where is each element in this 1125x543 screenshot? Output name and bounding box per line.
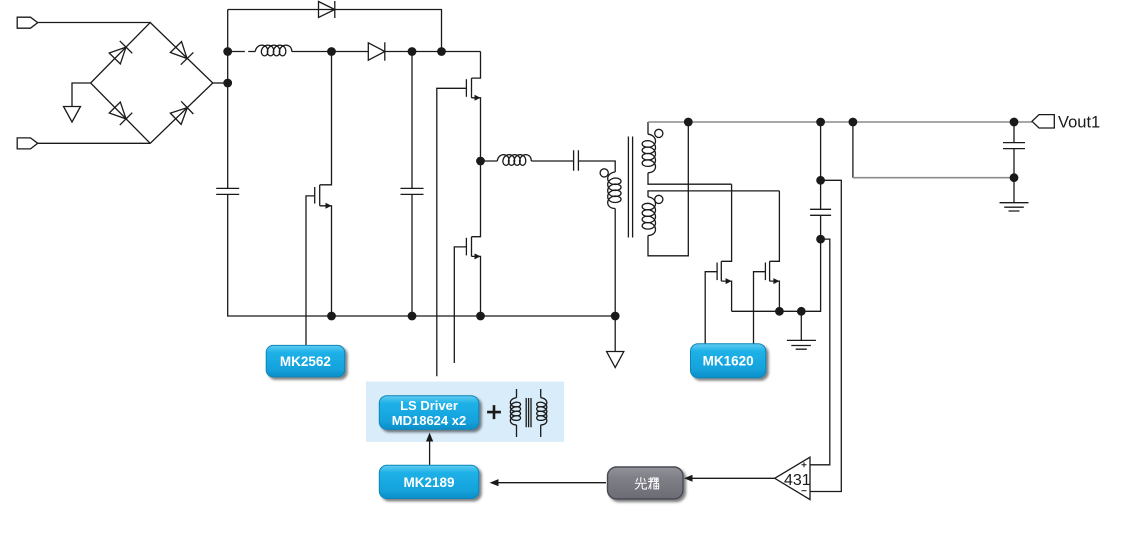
transistor Q3 drain (HB low) [472,161,481,237]
transistor M1 channel [720,261,722,281]
plus sign [487,405,501,419]
bridge rectifier diamond wires [91,23,213,144]
wire J1 to bridge top [38,22,151,24]
wire bridge left vertex to ground [72,83,91,107]
transistor Q1 gate bar [314,187,316,204]
wire mid node to L2 [481,160,498,162]
node boost bus dots [223,47,232,56]
transistor M2 channel [769,261,771,281]
wire C2 branch [411,52,413,189]
transformer T2 right lead top [540,389,542,398]
wire feedback minus sense [810,180,841,491]
wire L1 to D6 [292,51,369,53]
svg-text:Vout1: Vout1 [1058,114,1100,132]
wire return line [853,177,1014,179]
transistor Q3 gate line to LS driver [454,247,466,363]
label box MK2562 [266,345,345,377]
transistor M2 gate bar [764,263,766,281]
transistor M2 source [770,281,780,311]
transistor Q3 channel [471,237,473,257]
transistor M2 arrow [773,278,779,284]
LS driver panel [366,382,564,442]
glyph guang [635,477,658,489]
node half-bridge mid [476,157,485,166]
wire gap detail [245,50,248,53]
transformer T2 left winding [510,398,520,425]
diode D1 (bridge top-left) [109,41,133,65]
wire C2 to rail [411,194,413,316]
transistor M1 gate line to MK1620 [705,272,717,344]
transistor Q1 channel [319,185,321,206]
transistor M2 drain (sync rect) [770,191,780,261]
wire bridge right vertex to DC bus [213,82,228,84]
svg-text:431: 431 [784,472,811,489]
capacitor C4 [810,209,831,215]
svg-text:MK2562: MK2562 [280,354,331,369]
wire S2 bottom to output rail [648,122,688,256]
label box LS Driver MD18624 x2 [379,396,479,430]
transistor M1 source [721,281,731,311]
transistor Q3 source [472,256,481,316]
diode D4 (bridge bottom-right) [170,101,194,125]
inductor L1 (boost) [255,45,291,56]
wire boost input [228,51,256,53]
output connector Vout1 [1032,115,1054,128]
svg-text:MD18624 x2: MD18624 x2 [392,413,466,428]
transformer T1 secondary S2 winding [642,197,655,236]
diode D5 (bypass) [319,2,335,18]
wire rail to C5 [1013,122,1015,143]
transistor Q2 drain (HB high) [472,52,481,79]
ground G2 (chassis triangle) [607,352,624,368]
node primary rail dots [327,312,336,321]
transistor Q2 gate line to LS driver [437,88,467,376]
diode D3 (bridge bottom-left) [109,101,133,125]
transformer T1 secondary S2 phase dot [655,195,663,203]
transformer T1 secondary S1 winding [642,134,655,173]
wire rail to second filter [852,122,854,178]
capacitor C1 [216,188,239,194]
capacitor C2 [401,188,424,194]
transistor Q2 channel [471,78,473,98]
transformer T1 primary winding [608,172,621,209]
transistor Q2 source [472,98,481,161]
node return dot [1010,173,1019,182]
wire output rail Vout [648,121,1032,123]
node sync source dots [775,307,784,316]
transformer T2 core [526,398,531,427]
wire L2 to C3 [531,160,573,162]
transistor Q2 gate bar [465,79,467,97]
svg-text:MK2189: MK2189 [403,475,454,490]
input connector J2 [17,138,38,149]
ground G4 (earth) [1000,203,1029,211]
op-amp U3 (431 shunt reference) [775,457,810,499]
arrow optocoupler to MK2189 [498,482,607,484]
transistor Q2 arrow [475,95,481,101]
ground G1 (chassis triangle) [64,107,81,123]
transistor M1 gate bar [716,263,718,281]
wire C4 bottom [820,215,822,239]
input connector J1 [17,17,38,28]
arrow MK2189 to LS driver [429,440,431,465]
arrow 431 to optocoupler [690,477,775,479]
transistor M1 arrow [726,278,732,284]
wire C5 to ground G4 [1013,149,1015,203]
wire rail to ground G2 [614,316,616,352]
transistor Q1 drain (boost switch) [320,52,332,185]
transistor Q1 gate lead to MK2562 [306,196,315,345]
transistor Q3 arrow [475,253,481,259]
wire rail to C4 [820,122,822,209]
transformer T1 secondary S1 top lead [647,122,649,134]
svg-text:MK1620: MK1620 [703,354,754,369]
wire top bypass branch [228,10,442,52]
wire J2 to bridge bottom [38,142,151,144]
plus input mark [802,462,807,467]
svg-text:LS Driver: LS Driver [400,398,458,413]
node C4 top dot [816,176,825,185]
label box optocoupler [608,467,684,499]
transformer T2 right winding [537,398,547,425]
minus input mark [802,490,807,492]
node output rail dots [684,118,693,127]
node C4 bottom dot [816,235,825,244]
transistor Q3 gate bar [465,238,467,256]
diode D2 (bridge top-right) [170,41,194,65]
wire C3 to primary [578,161,615,172]
transformer T1 secondary S1 phase dot [655,129,663,137]
wire sync source line [732,239,821,311]
capacitor C3 (resonant, series) [574,150,579,171]
wire feedback plus sense [810,239,830,465]
transistor Q1 arrow [326,203,332,209]
inductor L2 (resonant) [497,155,531,166]
transistor M1 drain (sync rect) [721,184,731,261]
transistor Q1 source [320,206,332,316]
glyph ou [648,477,658,489]
wire S2 top to M2 drain [648,191,779,197]
diode D6 (boost) [368,43,385,60]
wire D6 to Q2 drain [385,51,481,53]
ground G3 (earth) [787,340,816,349]
capacitor C5 [1003,143,1025,149]
label box MK1620 [691,344,766,378]
wire C1 to primary rail [228,194,616,316]
wire to ground G3 [800,311,802,340]
transformer T1 core [628,137,632,238]
wire primary bottom to rail [614,209,616,317]
label box MK2189 [379,465,479,498]
transformer T2 right lead bottom [540,425,542,437]
transformer T2 left lead bottom [516,425,518,437]
wire DC bus vertical [227,10,229,189]
transistor M2 gate line to MK1620 [754,272,766,344]
transformer T1 primary phase dot [600,169,608,177]
wire S1 bottom to M1 drain [648,173,732,184]
transformer T2 left lead top [516,389,518,398]
